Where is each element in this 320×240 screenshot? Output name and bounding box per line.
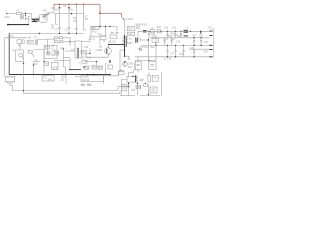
junction T3 bottom [124,56,125,57]
T2 winding ticks [77,50,80,56]
cap column stub [148,72,150,75]
svg-text:TH: TH [12,50,15,52]
cap C9 [89,38,92,39]
junction T2 top [77,48,78,49]
svg-text:R19: R19 [82,52,87,54]
junction Q3 top [124,61,125,62]
diode D3 [111,32,114,34]
junction y69.6 [69,69,70,70]
junction gnd 2 [175,45,176,46]
svg-text:D13: D13 [208,28,213,30]
cap column x149 [148,75,150,82]
wire into box [120,69,122,71]
vertical x44 down [43,66,45,75]
cap C41 leads [175,31,177,38]
junction mid bus 1 [39,33,40,34]
wire Q2 source bottom [86,54,108,57]
primary ground bus bottom (thick) [9,74,110,76]
cap CX inside filter box [44,16,46,17]
svg-text:R20: R20 [128,28,133,30]
wires cluster x33-48 y61-66 [34,62,49,66]
wire corner bottom right [52,45,54,47]
junction mid bus C6 [68,33,69,34]
GND bus right [141,44,212,46]
cap bank caps between 5V and gnd: c1 [164,38,166,46]
left vertical secondary [4,38,6,76]
junction -12 c [193,56,194,57]
junction 137.5 [137,83,138,84]
junction x70 [69,41,70,42]
bottom right region: box at 119 [119,71,125,74]
vertical x156 [155,38,157,60]
driver transformer T2 box [75,41,82,58]
svg-text:R63: R63 [87,85,92,87]
vertical x103.5 [103,75,105,85]
junction small box [145,83,146,84]
opto internals [137,64,140,65]
wire T2 bottom to bus [69,58,71,70]
vertical x33.5 up [33,65,35,75]
junction box top left [99,26,100,27]
box under R20 [127,32,135,36]
snubber diode D5 [123,18,126,21]
output choke L2 bar2 [184,31,189,33]
transistor Q1 circle inside driver stage [46,51,50,55]
junction T3 pin [124,49,125,50]
wire base box to Q2 [86,53,90,55]
-12V bus [135,56,212,58]
junction on red at branch [83,4,84,5]
cap c3 [193,38,195,46]
resistor R36 on rail [157,30,161,33]
AC input terminal L [6,13,7,14]
svg-text:C14: C14 [71,50,76,52]
junction 128.5 83.5 [128,83,129,84]
bottom rail b [140,95,160,97]
svg-text:R30: R30 [85,68,90,70]
opto box region left [135,61,141,70]
svg-text:R22: R22 [60,48,65,50]
junction +12V extra a [148,31,149,32]
cap c4 [200,38,202,46]
cap bank c2 [171,38,173,46]
switch terminal dot top [25,15,26,16]
wire rectifier box to gnd [155,42,157,45]
cap C41 body [174,34,177,35]
inner box B1 [91,27,99,30]
X-capacitor CX1 [20,15,23,19]
vertical x161.5 [161,72,163,96]
svg-text:230V: 230V [5,17,11,19]
bottom rail a [120,95,135,97]
small box 28-32 y50 [28,50,32,53]
wire diode to winding [138,31,143,37]
junction box top [132,76,133,77]
svg-text:C50: C50 [131,90,136,92]
Q2 leads [106,45,110,58]
svg-text:R42: R42 [204,51,209,53]
wire y49.5 [34,50,44,54]
red net end drop [121,13,123,16]
wire box to right [106,27,118,32]
box R21 [110,35,117,38]
cap C6 lead [68,4,70,27]
junction +12V 2 [175,31,176,32]
junction at 110 [109,26,110,27]
wire fuse to node A [22,12,32,14]
junction box top right [105,26,106,27]
junction Q2 drain [108,44,109,45]
junction bridge wire [71,13,72,14]
svg-text:FR107: FR107 [127,19,135,21]
T2 core bar [77,49,79,59]
wire R11 to x70 [63,37,70,39]
resistor R5 plates [75,28,78,29]
junction on red at C5 [59,4,60,5]
secondary ticks [136,38,141,42]
AC neutral bus (thick) [8,24,29,26]
X-capacitor CX1 plates [21,16,23,17]
secondary winding bar 2 [137,38,139,43]
svg-text:R27: R27 [82,58,87,60]
transistor Q5 circle [19,53,23,57]
vertical x23.5 [23,50,25,64]
common mode choke L1 winding top [32,18,38,21]
common mode choke L1 winding bottom [32,20,38,23]
box 137-141 [136,85,141,88]
junction x23.5 [23,63,24,64]
wire resistor rows left join [53,38,55,42]
junction gnd 3 [193,45,194,46]
wire C9 [81,35,90,42]
Q2 gate bar [106,49,108,54]
wire red corner down to standby box [99,13,101,26]
bridge negative return wire [56,14,58,25]
secondary winding bars [135,37,137,42]
T3 core second bar [125,36,127,47]
svg-text:C30: C30 [190,48,195,50]
rectifier diode D12 on rail [143,31,146,32]
cap plates x129 [127,86,130,87]
svg-text:BR: BR [43,11,47,13]
connector marks [7,77,13,79]
svg-text:C47: C47 [192,35,197,37]
resistor R12 [54,41,58,43]
junction secondary [148,39,149,40]
svg-text:C945: C945 [128,63,134,65]
feedback internals [150,64,153,66]
junction on red at C6 [68,4,69,5]
wire bridge to red rail [50,9,54,13]
marks box rows [151,89,155,91]
resistor R5 lead from red rail [76,4,78,28]
svg-text:R35: R35 [157,27,162,29]
wire y86.7 [118,87,129,91]
svg-text:R40: R40 [177,36,182,38]
vertical x42 cross [41,75,43,77]
feedback box [149,61,156,70]
junction +12V 1 [167,31,168,32]
junction x33.5 65 [33,64,34,65]
junction red corner [99,13,101,15]
bridge rectifier D2 upper diode [46,12,49,15]
box IC3 [27,40,33,44]
vertical x120 [119,60,121,73]
svg-text:C39: C39 [179,54,184,56]
svg-text:C40: C40 [164,27,169,29]
small box 122-126.5 [122,84,127,91]
box IC protection [17,40,22,43]
junction 148.5 94 [148,94,149,95]
junction +12V extra d [190,31,191,32]
curve wire [31,53,34,57]
wire varistor to neutral bus [28,19,30,24]
bridge rectifier D1 lower diode [43,14,46,17]
stepped wire center [129,70,134,77]
junction -12 b [175,56,176,57]
svg-text:C15: C15 [128,34,133,36]
wire x63.5 vertical [64,49,66,75]
svg-text:C52: C52 [60,80,65,82]
resistor R10 [54,37,58,39]
wire jog [16,50,24,62]
svg-text:C13: C13 [112,42,117,44]
output choke L2 bar1 [184,29,189,31]
+5V rail [150,37,209,39]
right edge connector line [213,28,215,58]
wire corner at 19,61.5 [16,61,24,63]
switch terminal dot bottom [25,18,26,19]
wire Q5 tail [22,57,24,59]
cap C8 lead [68,29,70,34]
varistor VR1 [28,16,30,19]
fuse F1 [16,12,22,14]
svg-text:220u: 220u [68,10,74,12]
svg-text:C35: C35 [204,42,209,44]
wire from T6 [99,39,101,44]
ground bus junction 3 [87,74,89,76]
wire corner x75.5 [76,75,82,77]
wire base node up [89,49,91,54]
ground bus junction 2 [65,74,67,76]
box R25 [54,51,59,55]
box T6 [100,36,106,39]
cap C42 dark [200,31,202,34]
wire top connect [135,60,156,62]
svg-text:D12 FR302: D12 FR302 [135,24,147,26]
junction base node [89,53,90,54]
primary return wire to transformer [108,44,125,46]
vertical x137.5 [137,83,139,95]
cap C44 [148,31,150,38]
T3 winding ticks left [122,37,124,45]
box left small [82,60,87,63]
T3 winding ticks right [126,38,128,43]
box 127-137 [127,77,137,83]
wire bridge diagonal [42,13,50,18]
wire y69.6 [70,69,81,71]
svg-text:R24: R24 [150,47,155,49]
svg-text:220u: 220u [54,10,60,12]
junction x84 [83,66,84,67]
wire Q2 to T3 [120,50,125,60]
cap C40 leads [167,31,169,38]
small box mid bottom [144,84,148,87]
svg-text:C37: C37 [170,54,175,56]
primary mid bus [9,32,84,34]
wire Q4 down [19,43,21,50]
wire AC line to fuse [7,12,16,14]
main transformer T3 primary core [124,35,126,57]
junction step [23,90,24,91]
junction +5V a [193,37,194,38]
control box 2 TL494 [81,76,104,82]
svg-text:R16: R16 [84,47,89,49]
box R32 [98,66,102,69]
vertical x148.5 [148,38,150,60]
wire winding to rectifier node [141,39,149,41]
-5V rail short [189,48,209,50]
vertical x23.5 lower [23,64,25,75]
ground bus end dot [109,74,111,76]
junction 128.5 86.7 [128,86,129,87]
svg-text:C44: C44 [151,34,156,36]
junction mid bus C5 [59,33,60,34]
junction +12V 3 [200,31,201,32]
small box inside driver stage [46,47,50,49]
stub -12bus to opto box [137,57,139,73]
standby transformer box T1 region [91,27,106,37]
junction x44 [43,61,44,62]
svg-text:SBL: SBL [136,28,141,30]
svg-text:C41: C41 [172,27,177,29]
svg-text:C45: C45 [168,36,173,38]
junction secondary2 [155,45,156,46]
+12V rail [146,30,209,32]
junction x110 [109,60,111,62]
svg-text:C48: C48 [199,35,204,37]
resistor R5 lead bottom [76,29,78,33]
ground bus junction 4 [93,74,95,76]
-12V terminal bold [209,56,212,58]
cap C39 [182,45,184,56]
svg-text:C32: C32 [171,39,176,41]
rectifier cluster box [152,38,159,42]
wire snubber to transformer [122,17,125,26]
wire T3 bottom stub [125,56,130,60]
svg-text:4N35: 4N35 [52,68,58,70]
junction +12V extra b [160,31,161,32]
secondary winding lower ticks [136,76,138,80]
driver transformer T2 small [35,39,37,45]
control box 1 (TL494 area) [42,76,54,81]
wire y60.4 top [84,61,97,63]
transistor Q4 circle [21,40,25,44]
cap C6 top plates [68,7,70,9]
svg-text:R50: R50 [61,76,66,78]
cap c7 [193,49,195,57]
box 150-157 [150,87,157,93]
vertical x134.8 [134,62,136,70]
GND terminal label2 [209,35,212,37]
cap C5 top plates [59,7,61,9]
red net +310V vertical left [53,4,55,9]
caps to -12 bus c6 [174,45,176,56]
vertical x66 down [65,75,67,85]
driver stage big box [44,45,57,58]
svg-text:CX: CX [43,19,47,21]
box R30 [84,66,89,69]
box R31 [92,65,97,69]
choke core bar [37,18,39,22]
secondary winding lower bar [135,75,137,82]
svg-text:R18: R18 [51,51,56,53]
junction gnd 1 [167,45,168,46]
wire R13 to x70 [63,41,75,43]
primary left vertical rail [8,33,10,74]
optocoupler box 4N35 [52,62,59,69]
svg-text:TL494: TL494 [82,77,89,79]
wire 129 56.8 [128,57,130,60]
marks in box [123,86,125,88]
wire from connector stepped [10,83,118,91]
junction gnd extra [183,45,184,46]
cap C43 [180,31,182,38]
cap C7 lead [59,29,61,34]
AC connector box bottom left [5,76,15,82]
junction +5V b [200,37,201,38]
cap C5 lead [59,4,61,27]
svg-text:C18: C18 [87,58,92,60]
junction x96.5 [96,61,97,62]
neutral terminal dot [7,24,9,26]
mark inside [154,77,157,79]
svg-text:C33: C33 [176,41,181,43]
wire from T2 right [38,38,54,40]
+12V terminal label [209,30,212,32]
hatch transistor [140,79,145,82]
junction +12V extra c [180,31,181,32]
transistor Q3 circle [123,62,128,67]
junction -12 a [167,56,168,57]
dark tick x110 [109,60,111,63]
svg-text:BD1: BD1 [92,28,97,30]
GND terminal bold [209,44,212,46]
left dashed region top line [5,37,28,39]
svg-text:R15: R15 [92,31,97,33]
svg-text:C22 R23: C22 R23 [140,47,150,49]
svg-text:R31: R31 [93,67,98,69]
box R20 [127,26,135,31]
red net +310V top rail [54,3,101,5]
cap C40 body [166,34,169,35]
svg-text:R62: R62 [81,85,86,87]
vertical x96.5 lower [96,62,98,65]
vertical x105.5 [105,63,107,76]
vertical x128.5 [128,82,130,96]
svg-text:L3 C38: L3 C38 [164,59,172,61]
wire branch x83.5 down [84,4,87,30]
node A junction [25,13,26,14]
wire half bridge mid [54,59,70,61]
inductor L1 on rail [150,30,154,33]
cap C13 [109,41,112,42]
cap C8 plates lower [68,28,71,29]
junction on red at R lead [76,4,77,5]
-5V terminal bold [209,49,212,51]
junction x63.5 [63,48,64,49]
svg-text:R25: R25 [55,53,60,55]
